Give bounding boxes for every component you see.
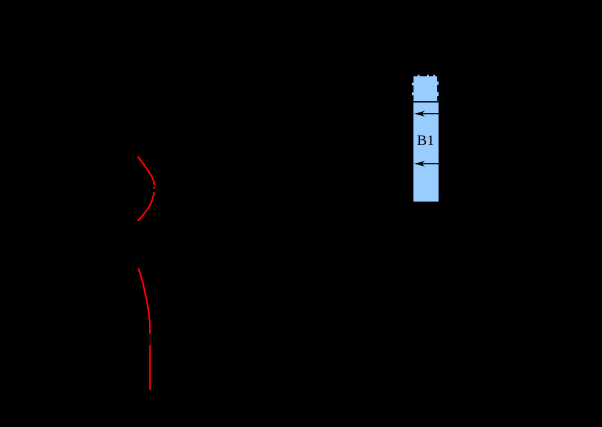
- black separator line under break: [413, 101, 439, 103]
- arrow 1 head: [414, 111, 425, 117]
- red curve lower bend segment: [138, 268, 150, 333]
- red curve apex dots (hatching crosses here): [153, 187, 155, 196]
- bar B1 ragged top (break symbol): [412, 75, 439, 102]
- red curve upper arc lower part: [138, 196, 154, 221]
- svg-text:B1: B1: [417, 133, 435, 149]
- bar B1 main body: [413, 101, 438, 202]
- arrow 2 shaft: [416, 163, 446, 165]
- red curve upper arc segment: [138, 157, 155, 186]
- arrow 1 shaft: [416, 113, 446, 115]
- red vertical tail segment: [149, 345, 151, 390]
- arrow 2 head: [414, 161, 425, 167]
- red curve faint portion under crossing element: [149, 335, 151, 345]
